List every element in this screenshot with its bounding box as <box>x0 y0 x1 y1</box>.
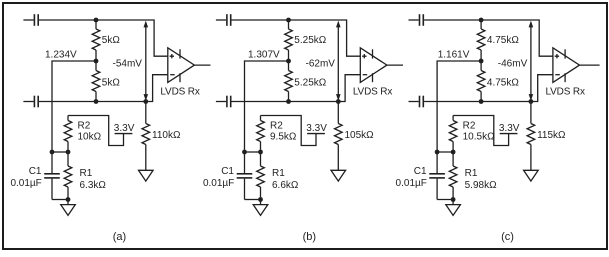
resistor R1 <box>449 152 457 200</box>
svg-text:LVDS Rx: LVDS Rx <box>353 86 392 97</box>
node: top rail junction <box>479 18 484 23</box>
svg-text:5kΩ: 5kΩ <box>102 35 121 46</box>
wire: bottom rail to op-amp inverting input <box>39 75 168 102</box>
resistor R2 <box>257 116 265 153</box>
resistor 5.25kΩ (lower divider) <box>285 61 293 102</box>
capacitor C1 <box>429 152 445 200</box>
svg-text:R1: R1 <box>272 168 285 179</box>
svg-text:10.5kΩ: 10.5kΩ <box>463 131 495 142</box>
resistor 105kΩ termination <box>335 102 343 171</box>
node: divider midpoint <box>286 59 291 64</box>
op-amp: LVDS receiver <box>553 48 580 83</box>
wire: bottom node row <box>245 199 261 201</box>
svg-text:LVDS Rx: LVDS Rx <box>160 86 199 97</box>
wire: bottom rail to op-amp inverting input <box>424 75 553 102</box>
wire: bias node row <box>437 151 453 153</box>
node: termination junction on bottom rail <box>336 99 341 104</box>
svg-text:(a): (a) <box>113 231 126 243</box>
ground (bias network) <box>61 200 76 216</box>
capacitor: bottom input coupling cap <box>420 96 424 108</box>
resistor R2 <box>64 116 72 153</box>
svg-text:6.6kΩ: 6.6kΩ <box>272 180 299 191</box>
node: bottom rail junction <box>479 99 484 104</box>
capacitor: bottom input coupling cap <box>34 96 38 108</box>
wire: top rail to op-amp noninverting input <box>232 20 361 56</box>
node: bias node (C1 top) <box>50 150 55 155</box>
capacitor: top input coupling cap <box>34 14 38 26</box>
svg-text:0.01µF: 0.01µF <box>203 178 234 189</box>
node: bias node (C1 top) <box>435 150 440 155</box>
wire: IN+ lead-in <box>23 19 33 21</box>
supply 3.3V terminal <box>115 133 133 135</box>
resistor 4.75kΩ (upper divider) <box>477 20 485 61</box>
wire: bottom node row <box>52 199 68 201</box>
capacitor: top input coupling cap <box>420 14 424 26</box>
resistor 5kΩ (upper divider) <box>92 20 100 61</box>
svg-text:LVDS Rx: LVDS Rx <box>546 86 585 97</box>
wire: bias tap from divider midpoint <box>245 61 289 152</box>
wire: R2 to 3.3V supply <box>68 116 124 146</box>
node: bias node (R1/R2) <box>451 150 456 155</box>
svg-text:5kΩ: 5kΩ <box>102 78 121 89</box>
supply 3.3V terminal <box>500 133 518 135</box>
capacitor C1 <box>237 152 253 200</box>
node: R1/C1 ground junction <box>451 197 456 202</box>
svg-text:1.161V: 1.161V <box>438 50 470 61</box>
node: bottom rail junction <box>286 99 291 104</box>
node: termination junction on bottom rail <box>143 99 148 104</box>
node: top rail junction <box>94 18 99 23</box>
svg-text:-62mV: -62mV <box>306 59 336 70</box>
ground (termination resistor) <box>139 170 154 181</box>
op-amp: LVDS receiver <box>360 48 387 83</box>
svg-text:3.3V: 3.3V <box>306 123 327 134</box>
resistor 115kΩ termination <box>527 102 535 171</box>
measurement arrow (-54mV across inputs) <box>144 21 149 101</box>
node: termination junction on bottom rail <box>529 99 534 104</box>
svg-text:5.98kΩ: 5.98kΩ <box>465 180 497 191</box>
svg-text:4.75kΩ: 4.75kΩ <box>487 35 519 46</box>
wire: bottom node row <box>437 199 453 201</box>
capacitor C1 <box>44 152 60 200</box>
svg-text:R1: R1 <box>80 168 93 179</box>
node: divider midpoint <box>479 59 484 64</box>
node: R1/C1 ground junction <box>66 197 71 202</box>
wire: IN- lead-in <box>23 101 33 103</box>
svg-text:10kΩ: 10kΩ <box>78 131 102 142</box>
svg-text:115kΩ: 115kΩ <box>537 130 566 141</box>
svg-text:5.25kΩ: 5.25kΩ <box>294 35 326 46</box>
svg-text:R2: R2 <box>78 120 91 131</box>
node: R1/C1 ground junction <box>258 197 263 202</box>
wire: R2 to 3.3V supply <box>453 116 509 146</box>
svg-text:-46mV: -46mV <box>498 59 528 70</box>
node: top rail junction <box>286 18 291 23</box>
measurement arrow (-62mV across inputs) <box>336 21 341 101</box>
svg-text:(b): (b) <box>303 231 316 243</box>
svg-text:-54mV: -54mV <box>113 59 143 70</box>
wire: op-amp output <box>194 64 210 66</box>
resistor 5.25kΩ (upper divider) <box>285 20 293 61</box>
svg-text:C1: C1 <box>29 166 42 177</box>
svg-text:4.75kΩ: 4.75kΩ <box>487 78 519 89</box>
svg-text:105kΩ: 105kΩ <box>345 130 375 141</box>
ground (bias network) <box>253 200 268 216</box>
svg-text:0.01µF: 0.01µF <box>10 178 41 189</box>
svg-text:0.01µF: 0.01µF <box>396 178 427 189</box>
resistor 4.75kΩ (lower divider) <box>477 61 485 102</box>
wire: IN- lead-in <box>216 101 226 103</box>
resistor R1 <box>257 152 265 200</box>
node: bias node (R1/R2) <box>66 150 71 155</box>
op-amp: LVDS receiver <box>168 48 195 83</box>
resistor 110kΩ termination <box>142 102 150 171</box>
wire: IN+ lead-in <box>216 19 226 21</box>
wire: op-amp output <box>580 64 600 66</box>
resistor 5kΩ (lower divider) <box>92 61 100 102</box>
svg-text:R2: R2 <box>463 120 476 131</box>
wire: IN- lead-in <box>409 101 419 103</box>
wire: top rail to op-amp noninverting input <box>39 20 168 56</box>
svg-text:1.234V: 1.234V <box>45 50 77 61</box>
wire: bottom rail to op-amp inverting input <box>232 75 361 102</box>
ground (termination resistor) <box>331 170 346 181</box>
svg-text:3.3V: 3.3V <box>499 123 520 134</box>
svg-text:R1: R1 <box>465 168 478 179</box>
node: bias node (C1 top) <box>242 150 247 155</box>
wire: bias tap from divider midpoint <box>52 61 96 152</box>
resistor R1 <box>64 152 72 200</box>
node: bias node (R1/R2) <box>258 150 263 155</box>
ground (bias network) <box>446 200 461 216</box>
svg-text:1.307V: 1.307V <box>248 50 280 61</box>
svg-text:110kΩ: 110kΩ <box>152 130 181 141</box>
svg-text:6.3kΩ: 6.3kΩ <box>80 180 107 191</box>
svg-text:(c): (c) <box>501 231 514 243</box>
svg-text:R2: R2 <box>270 120 283 131</box>
wire: bias tap from divider midpoint <box>437 61 481 152</box>
supply 3.3V terminal <box>307 133 325 135</box>
svg-text:5.25kΩ: 5.25kΩ <box>294 78 326 89</box>
node: bottom rail junction <box>94 99 99 104</box>
svg-text:9.5kΩ: 9.5kΩ <box>270 131 297 142</box>
svg-text:C1: C1 <box>414 166 427 177</box>
svg-text:3.3V: 3.3V <box>114 123 135 134</box>
wire: bias node row <box>245 151 261 153</box>
resistor R2 <box>449 116 457 153</box>
ground (termination resistor) <box>524 170 539 181</box>
wire: top rail to op-amp noninverting input <box>424 20 553 56</box>
wire: R2 to 3.3V supply <box>261 116 317 146</box>
wire: op-amp output <box>387 64 403 66</box>
measurement arrow (-46mV across inputs) <box>529 21 534 101</box>
wire: IN+ lead-in <box>409 19 419 21</box>
wire: bias node row <box>52 151 68 153</box>
capacitor: top input coupling cap <box>227 14 231 26</box>
capacitor: bottom input coupling cap <box>227 96 231 108</box>
node: divider midpoint <box>94 59 99 64</box>
svg-text:C1: C1 <box>221 166 234 177</box>
